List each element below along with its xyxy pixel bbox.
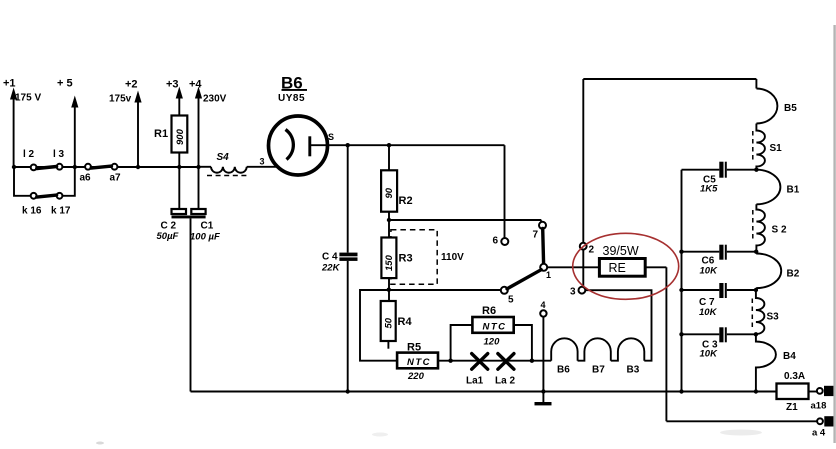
switch blade k16-k17 (37, 195, 57, 197)
terminal +2 arrow (109, 79, 142, 168)
lamp La1 (466, 354, 488, 387)
terminal a18 (811, 386, 835, 412)
capacitor C1 lead (198, 167, 200, 209)
svg-text:3: 3 (570, 287, 576, 298)
switch blade 1-5 (507, 270, 541, 289)
switch contact a6 (80, 164, 92, 184)
terminal a4 (812, 416, 834, 438)
svg-text:B7: B7 (592, 365, 605, 376)
switch blade 7-1 (541, 229, 545, 265)
svg-text:+ 5: + 5 (57, 78, 73, 90)
coil S3 (752, 290, 779, 334)
svg-text:10K: 10K (700, 266, 719, 277)
svg-text:La1: La1 (466, 376, 484, 387)
svg-text:C 4: C 4 (322, 252, 338, 263)
wire node R3 to contact 5 (389, 289, 501, 291)
node junction +4 / S4 / bus (196, 165, 200, 169)
svg-text:2: 2 (589, 245, 595, 256)
switch blade l2-l3 (37, 167, 57, 169)
svg-text:10K: 10K (700, 349, 719, 360)
svg-text:39/5W: 39/5W (603, 244, 639, 258)
fuse Z1 0.3A (777, 371, 818, 413)
node junction C6 / cap bus (679, 250, 683, 254)
switch contact 6 (493, 236, 509, 247)
terminal +4 arrow (189, 79, 227, 168)
node junction pin4 / bottom bus (541, 389, 545, 393)
node junction below R2 (387, 218, 391, 222)
svg-text:S3: S3 (767, 312, 780, 323)
capacitor C7 (682, 283, 756, 318)
node junction C5 / column (754, 168, 758, 172)
lamp La2 (495, 354, 515, 387)
heater coil B3 (611, 338, 645, 375)
resistor R2 (381, 145, 412, 220)
svg-text:3: 3 (260, 157, 265, 167)
tube B6 title (278, 74, 307, 105)
svg-text:Z1: Z1 (786, 402, 798, 413)
ground (535, 392, 552, 406)
coil column top corner (755, 79, 757, 89)
node junction C3 / column (754, 332, 758, 336)
svg-text:S4: S4 (217, 152, 230, 163)
resistor R5 NTC (397, 342, 438, 383)
svg-text:a 4: a 4 (812, 428, 826, 439)
wire capacitor bus vertical (681, 170, 683, 392)
svg-text:RE: RE (609, 261, 626, 275)
terminal +3 arrow (166, 79, 183, 116)
svg-text:l 3: l 3 (53, 149, 65, 160)
tube B6 UY85 envelope (269, 116, 328, 175)
switch blade a6-a7 (91, 166, 111, 168)
svg-text:B5: B5 (784, 103, 797, 114)
svg-text:NTC: NTC (483, 322, 507, 333)
scan smudge 2 (96, 442, 104, 445)
svg-text:S 2: S 2 (772, 225, 787, 236)
svg-text:a7: a7 (110, 173, 122, 184)
capacitor C3 (682, 327, 756, 359)
node junction S / C4 branch (346, 143, 350, 147)
svg-text:6: 6 (493, 236, 499, 247)
coil B4 (756, 334, 796, 391)
wire top net horizontal (583, 78, 756, 80)
resistor RE 39/5W (547, 244, 666, 276)
switch contact 2 (580, 243, 595, 256)
resistor R1 (154, 116, 187, 168)
svg-text:900: 900 (175, 128, 186, 145)
capacitor C5 (682, 162, 757, 195)
capacitor C2 lead (178, 167, 180, 209)
node junction C6 / column (754, 250, 758, 254)
terminal +5 arrow (57, 78, 78, 168)
svg-text:R4: R4 (398, 316, 413, 328)
wire k-row branch left (14, 167, 31, 196)
svg-text:NTC: NTC (407, 357, 431, 368)
switch contact 7 (533, 222, 547, 241)
red highlight ellipse around RE (573, 233, 679, 299)
wire bottom bus2 to terminal (666, 420, 820, 422)
svg-text:0.3A: 0.3A (784, 371, 805, 382)
tube B6 cathode arc (286, 130, 294, 160)
svg-text:B2: B2 (787, 269, 800, 280)
svg-text:B1: B1 (787, 185, 800, 196)
node junction cap bus / bus1 (679, 389, 683, 393)
node junction +5 / bus (73, 165, 77, 169)
svg-text:k 16: k 16 (22, 206, 42, 217)
heater coil B6 (551, 338, 577, 375)
svg-text:110V: 110V (441, 252, 464, 263)
node junction R6 left (448, 359, 452, 363)
svg-text:22K: 22K (321, 263, 341, 274)
node junction S / R2 branch (387, 143, 391, 147)
coil S1 (753, 124, 782, 170)
coil B5 (756, 89, 797, 124)
node junction +1 / bus (12, 165, 16, 169)
capacitor C2 (157, 209, 187, 242)
svg-text:a18: a18 (811, 401, 827, 412)
wire tube anode to node S (311, 144, 505, 146)
svg-text:230V: 230V (203, 94, 227, 105)
switch contact 1 (540, 264, 551, 280)
wire contact 6 drop (504, 145, 506, 238)
capacitor C4 (321, 252, 358, 274)
svg-text:100 µF: 100 µF (190, 232, 220, 243)
svg-text:S: S (328, 132, 334, 142)
wire node R2 to contact 7 (389, 220, 542, 223)
switch contact 5 (501, 287, 514, 306)
resistor R3 (381, 220, 412, 290)
coil B1 (756, 170, 799, 205)
svg-text:+2: +2 (125, 79, 138, 91)
heater coil B7 (578, 338, 611, 375)
svg-text:B4: B4 (783, 351, 796, 362)
scan edge grey line (833, 25, 835, 443)
svg-text:10K: 10K (699, 307, 718, 318)
resistor R6 NTC (451, 305, 532, 361)
dashed box 110V around R3 (391, 230, 464, 285)
wire k-row branch right (63, 167, 75, 196)
svg-text:1K5: 1K5 (700, 184, 718, 195)
node junction C7 / column (754, 288, 758, 292)
inductor S4 (199, 152, 279, 176)
switch contact 3 (570, 287, 585, 298)
switch contact 4 (540, 300, 546, 317)
svg-text:1: 1 (546, 270, 551, 280)
wire main AC bus y=167 (14, 166, 199, 168)
svg-text:50µF: 50µF (157, 231, 179, 242)
svg-text:R5: R5 (407, 342, 421, 354)
svg-text:B3: B3 (627, 365, 640, 376)
svg-text:220: 220 (407, 371, 425, 382)
capacitor C6 (682, 245, 757, 277)
resistor R4 (381, 290, 413, 349)
node junction +2 / bus (136, 165, 140, 169)
wire common plate to bottom bus (190, 218, 192, 391)
svg-text:50: 50 (384, 317, 395, 328)
wire C4 branch vertical (347, 145, 349, 391)
svg-text:La 2: La 2 (495, 376, 515, 387)
svg-text:150: 150 (384, 254, 395, 271)
svg-text:+3: +3 (166, 79, 179, 91)
svg-text:UY85: UY85 (278, 93, 305, 104)
wire contact 4 to ground bus (542, 317, 544, 392)
svg-text:+4: +4 (189, 79, 202, 91)
switch contact k17 (51, 193, 71, 217)
svg-text:+1: +1 (3, 78, 16, 90)
capacitor C1 (190, 209, 220, 243)
svg-text:7: 7 (533, 230, 539, 241)
terminal +1 arrow (3, 78, 41, 168)
svg-text:R2: R2 (399, 195, 413, 207)
svg-text:k 17: k 17 (51, 206, 71, 217)
scan smudge 3 (372, 433, 388, 437)
node junction R1 / bus (177, 165, 181, 169)
wire bottom bus1 (191, 391, 777, 393)
node junction below R3 (387, 288, 391, 292)
svg-text:175v: 175v (109, 94, 132, 105)
svg-text:R1: R1 (154, 128, 168, 140)
svg-text:a6: a6 (80, 173, 92, 184)
svg-text:4: 4 (541, 300, 546, 310)
coil S2 (753, 204, 787, 251)
svg-text:5: 5 (508, 295, 514, 306)
svg-text:120: 120 (484, 337, 501, 348)
svg-text:R3: R3 (399, 253, 413, 265)
coil B2 (756, 253, 800, 288)
svg-text:175 V: 175 V (15, 93, 41, 104)
wire left loop R3node to R5 (360, 290, 397, 361)
switch contact a7 (110, 164, 122, 184)
node junction C4 line / bus1 (346, 389, 350, 393)
wire RE right riser to bus2 (665, 267, 667, 421)
switch contact l2 (23, 149, 37, 170)
svg-text:C 2: C 2 (161, 221, 177, 232)
svg-text:C1: C1 (201, 221, 214, 232)
wire heater row right riser to contact 3 (586, 290, 652, 361)
tube B6 anode bar (308, 136, 311, 156)
wire R5 to lamp row (438, 360, 551, 362)
capacitor C1/C2 common plate (172, 216, 206, 219)
node junction C7 / cap bus (679, 288, 683, 292)
node junction coil column / bus1 (754, 389, 758, 393)
svg-text:S1: S1 (770, 143, 783, 154)
svg-text:B6: B6 (557, 365, 570, 376)
svg-text:l 2: l 2 (23, 149, 35, 160)
node junction R6 right (530, 359, 534, 363)
scan smudge 1 (720, 430, 762, 436)
tube B6 pin S label (328, 132, 334, 142)
svg-text:R6: R6 (482, 305, 496, 317)
svg-text:90: 90 (384, 187, 395, 198)
node junction C3 / cap bus (679, 332, 683, 336)
tube B6 pin 3 label (260, 157, 265, 167)
switch contact l3 (53, 149, 65, 170)
switch contact k16 (22, 193, 42, 217)
wire top net vertical 2-3 (582, 79, 584, 287)
